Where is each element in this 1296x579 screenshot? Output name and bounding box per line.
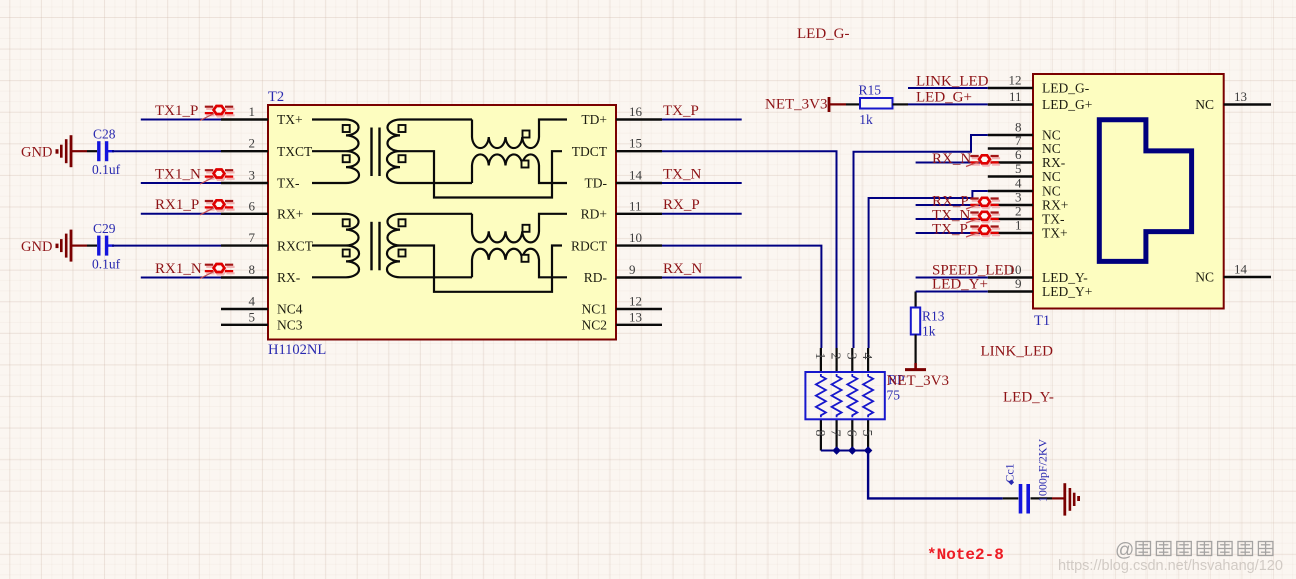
svg-text:RD+: RD+ (581, 207, 607, 222)
svg-text:0.1uf: 0.1uf (92, 162, 121, 177)
svg-text:TX_N: TX_N (663, 166, 701, 182)
svg-text:13: 13 (1234, 89, 1247, 104)
svg-text:10: 10 (629, 230, 642, 245)
svg-text:RX+: RX+ (1042, 198, 1068, 213)
svg-text:*Note2-8: *Note2-8 (927, 546, 1004, 564)
svg-text:Cc1: Cc1 (1003, 463, 1017, 482)
svg-text:R15: R15 (859, 83, 882, 98)
svg-text:LED_G-: LED_G- (1042, 81, 1090, 96)
svg-text:4: 4 (249, 294, 256, 309)
svg-text:TX-: TX- (1042, 212, 1065, 227)
svg-text:8: 8 (249, 262, 256, 277)
svg-text:13: 13 (629, 309, 642, 324)
svg-text:NC: NC (1195, 270, 1214, 285)
svg-text:https://blog.csdn.net/hsvahang: https://blog.csdn.net/hsvahang/120 (1058, 558, 1283, 574)
svg-text:6: 6 (1015, 147, 1022, 162)
svg-text:C28: C28 (93, 127, 116, 142)
svg-text:RX+: RX+ (277, 207, 303, 222)
svg-text:3: 3 (249, 168, 256, 183)
svg-text:5: 5 (249, 309, 256, 324)
svg-text:7: 7 (828, 430, 843, 437)
svg-text:NET_3V3: NET_3V3 (887, 373, 950, 389)
svg-text:16: 16 (629, 104, 643, 119)
svg-text:75: 75 (887, 388, 901, 403)
svg-text:11: 11 (1009, 89, 1022, 104)
svg-text:7: 7 (1015, 133, 1022, 148)
svg-text:C29: C29 (93, 221, 116, 236)
svg-text:RX_N: RX_N (663, 261, 702, 277)
svg-text:1: 1 (249, 104, 256, 119)
svg-text:NC2: NC2 (581, 318, 607, 333)
svg-text:11: 11 (629, 198, 642, 213)
svg-text:H1102NL: H1102NL (268, 342, 326, 358)
svg-text:14: 14 (629, 168, 643, 183)
svg-text:TDCT: TDCT (572, 144, 608, 159)
svg-text:R13: R13 (922, 309, 945, 324)
svg-text:LED_Y+: LED_Y+ (1042, 284, 1092, 299)
svg-text:LINK_LED: LINK_LED (981, 344, 1054, 360)
svg-text:15: 15 (629, 136, 642, 151)
svg-text:LINK_LED: LINK_LED (916, 74, 989, 90)
svg-text:8: 8 (812, 430, 827, 437)
svg-text:9: 9 (629, 262, 636, 277)
svg-text:RX-: RX- (277, 270, 301, 285)
svg-text:LED_G-: LED_G- (797, 26, 850, 42)
svg-text:T1: T1 (1034, 313, 1050, 329)
svg-text:LED_Y+: LED_Y+ (932, 276, 988, 292)
svg-text:1k: 1k (859, 112, 873, 127)
svg-text:RX1_N: RX1_N (155, 261, 202, 277)
svg-text:TX1_N: TX1_N (155, 166, 201, 182)
svg-text:LED_Y-: LED_Y- (1042, 270, 1088, 285)
svg-text:NC4: NC4 (277, 302, 303, 317)
svg-text:RD-: RD- (584, 270, 608, 285)
svg-text:NET_3V3: NET_3V3 (765, 97, 828, 113)
svg-text:RX-: RX- (1042, 155, 1066, 170)
svg-text:TX-: TX- (277, 176, 300, 191)
svg-text:RX_P: RX_P (663, 197, 700, 213)
svg-text:T2: T2 (268, 89, 284, 105)
svg-text:1000pF/2KV: 1000pF/2KV (1036, 438, 1050, 502)
svg-text:5: 5 (859, 430, 874, 437)
svg-text:NC: NC (1042, 169, 1061, 184)
svg-text:TX1_P: TX1_P (155, 103, 198, 119)
svg-text:NC1: NC1 (581, 302, 607, 317)
svg-text:2: 2 (828, 353, 843, 360)
svg-text:GND: GND (21, 145, 52, 161)
svg-text:RX1_P: RX1_P (155, 197, 199, 213)
svg-text:RXCT: RXCT (277, 238, 314, 253)
svg-text:RDCT: RDCT (571, 238, 608, 253)
svg-text:TD-: TD- (585, 176, 608, 191)
svg-text:TXCT: TXCT (277, 144, 313, 159)
svg-text:5: 5 (1015, 161, 1022, 176)
svg-text:4: 4 (1015, 176, 1022, 191)
svg-text:TD+: TD+ (581, 112, 607, 127)
svg-text:LED_G+: LED_G+ (916, 90, 972, 106)
svg-text:LED_G+: LED_G+ (1042, 97, 1092, 112)
svg-text:NC: NC (1042, 141, 1061, 156)
svg-text:1: 1 (1015, 218, 1022, 233)
svg-text:6: 6 (249, 198, 256, 213)
svg-text:TX+: TX+ (277, 112, 303, 127)
svg-text:NC: NC (1042, 184, 1061, 199)
svg-text:RX_N: RX_N (932, 151, 971, 167)
svg-text:TX_P: TX_P (932, 222, 968, 238)
svg-text:1: 1 (812, 353, 827, 360)
svg-text:6: 6 (843, 430, 858, 437)
svg-text:14: 14 (1234, 262, 1248, 277)
svg-text:4: 4 (859, 353, 874, 360)
svg-text:NC3: NC3 (277, 318, 303, 333)
svg-text:9: 9 (1015, 276, 1022, 291)
svg-text:3: 3 (843, 353, 858, 360)
svg-text:TX_P: TX_P (663, 103, 699, 119)
svg-text:2: 2 (249, 136, 256, 151)
svg-text:1k: 1k (922, 324, 936, 339)
svg-text:12: 12 (1009, 73, 1022, 88)
svg-text:7: 7 (249, 230, 256, 245)
svg-text:LED_Y-: LED_Y- (1003, 390, 1054, 406)
svg-text:NC: NC (1195, 97, 1214, 112)
svg-text:TX+: TX+ (1042, 226, 1068, 241)
svg-text:3: 3 (1015, 190, 1022, 205)
svg-text:2: 2 (1015, 204, 1022, 219)
svg-text:12: 12 (629, 294, 642, 309)
svg-text:GND: GND (21, 239, 52, 255)
svg-text:0.1uf: 0.1uf (92, 257, 121, 272)
